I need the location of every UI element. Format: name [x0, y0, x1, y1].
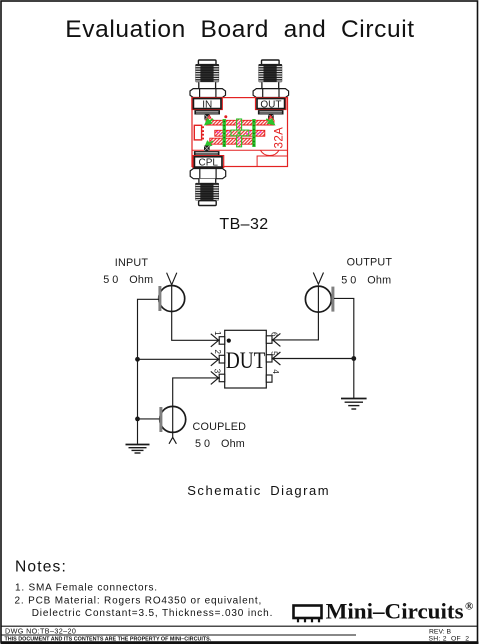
INPUT connector mounting bar — [158, 286, 161, 311]
pin 5 box — [266, 355, 272, 362]
wire: output circle to pin6 — [272, 312, 318, 340]
svg-text:2. PCB Material: Rogers RO4350: 2. PCB Material: Rogers RO4350 or equiva… — [15, 596, 263, 607]
svg-text:Evaluation Board and Circuit: Evaluation Board and Circuit — [65, 16, 414, 43]
left edge component symbol — [194, 125, 204, 140]
COUPLED connector stem — [172, 406, 174, 437]
top microstrip trace (hatched) — [206, 116, 274, 126]
wire: coupled tap — [138, 418, 160, 420]
red outline around CPL label — [193, 156, 224, 168]
svg-text:Notes:: Notes: — [15, 559, 67, 576]
SMA connector OUT : hex nut — [253, 89, 289, 98]
wire: pin5 — [272, 358, 354, 360]
green via fence bar right — [252, 119, 255, 147]
wire: pin3 to coupled — [173, 378, 219, 407]
pin 6 box — [266, 336, 272, 344]
ground right — [341, 399, 367, 410]
green via fence bar left — [223, 119, 226, 147]
junction node pin2 tap — [135, 357, 140, 362]
SMA connector IN : threaded barrel — [195, 64, 219, 82]
IN washer — [194, 110, 220, 114]
pin 4 box — [266, 375, 272, 382]
svg-text:1. SMA Female connectors.: 1. SMA Female connectors. — [15, 582, 158, 593]
svg-text:SH: 2 OF 2: SH: 2 OF 2 — [429, 635, 470, 642]
DUT box U1 — [225, 330, 267, 388]
svg-text:OUT: OUT — [260, 99, 281, 110]
svg-text:32A: 32A — [274, 127, 286, 149]
red outline around OUT label — [256, 98, 286, 110]
SMA connector CPL : neck — [199, 179, 216, 183]
junction node pin5/ground — [351, 356, 356, 361]
svg-text:CPL: CPL — [198, 158, 218, 169]
svg-text:®: ® — [465, 601, 473, 613]
svg-text:6: 6 — [270, 332, 279, 337]
PCB lower divider line — [192, 149, 288, 151]
footer top rule — [1, 625, 478, 627]
central DUT cross pad — [231, 119, 249, 147]
INPUT connector circle — [159, 286, 185, 312]
svg-text:50Ohm: 50Ohm — [103, 274, 153, 286]
COUPLED connector Y arrow (downward) — [169, 437, 176, 444]
SMA connector CPL : washer — [194, 151, 220, 156]
svg-text:50Ohm: 50Ohm — [195, 438, 245, 450]
footer mid rule — [1, 634, 356, 636]
svg-text:REV: B: REV: B — [429, 628, 451, 635]
svg-text:COUPLED: COUPLED — [193, 421, 247, 433]
pin 1 marker dot — [227, 339, 231, 343]
wire: pin2 — [138, 358, 219, 360]
red reference dot — [224, 115, 227, 118]
SMA connector CPL : hex nut — [190, 169, 226, 179]
svg-text:4: 4 — [271, 369, 280, 374]
svg-text:2: 2 — [213, 350, 222, 355]
svg-text:1: 1 — [213, 331, 222, 336]
svg-text:DUT: DUT — [226, 348, 266, 373]
arrow into pin 6 — [272, 333, 281, 346]
arrow into pin 3 — [211, 371, 220, 384]
IN center pin pad — [204, 115, 210, 121]
red outline around IN label — [192, 98, 222, 110]
svg-text:DWG NO:TB–32–20: DWG NO:TB–32–20 — [5, 626, 76, 635]
SMA connector IN : hex nut — [190, 89, 226, 98]
IN label box — [193, 99, 221, 109]
svg-text:THIS DOCUMENT AND ITS CONTENTS: THIS DOCUMENT AND ITS CONTENTS ARE THE P… — [5, 637, 212, 643]
arrow into pin 1 — [211, 334, 220, 347]
INPUT connector Y arrow — [167, 273, 177, 285]
arrow into pin 5 — [272, 352, 281, 365]
arrow into pin 2 — [211, 353, 220, 366]
pin 3 box — [219, 374, 225, 382]
COUPLED connector circle — [160, 406, 186, 432]
Mini-Circuits logo icon — [294, 606, 322, 623]
wire: output to right drop — [334, 298, 354, 398]
svg-text:Dielectric Constant=3.5, Thick: Dielectric Constant=3.5, Thickness=.030 … — [32, 608, 274, 619]
OUT label box — [257, 99, 285, 109]
PCB arc cutout — [260, 150, 279, 155]
svg-text:5: 5 — [270, 351, 279, 356]
SMA connector CPL : cap — [199, 201, 217, 206]
pin 2 box — [219, 355, 225, 363]
OUTPUT connector stem — [317, 285, 319, 312]
OUT center pin pad — [268, 115, 274, 121]
OUTPUT connector mounting bar — [331, 287, 334, 312]
pin 1 box — [219, 337, 225, 345]
svg-text:OUTPUT: OUTPUT — [347, 257, 393, 269]
svg-text:IN: IN — [202, 99, 212, 110]
CPL label box — [194, 157, 222, 167]
svg-text:INPUT: INPUT — [115, 257, 149, 269]
middle coupled-line trace (hatched) — [215, 130, 265, 136]
junction node coupled tap — [135, 417, 140, 422]
PCB board outline — [192, 98, 288, 167]
page bottom thick border — [1, 642, 479, 644]
SMA connector OUT : neck — [262, 82, 279, 88]
svg-text:TB–32: TB–32 — [219, 216, 268, 233]
COUPLED connector mounting bar — [159, 407, 162, 432]
OUTPUT connector Y arrow — [313, 273, 323, 285]
svg-text:Schematic Diagram: Schematic Diagram — [187, 483, 330, 498]
magenta via dots — [217, 123, 262, 144]
svg-text:50Ohm: 50Ohm — [341, 275, 391, 287]
OUTPUT connector circle — [305, 286, 331, 312]
ground left — [126, 445, 150, 454]
SMA connector CPL : threaded barrel — [195, 183, 219, 201]
svg-text:Mini–Circuits: Mini–Circuits — [326, 598, 464, 623]
SMA connector IN : neck — [199, 82, 216, 88]
SMA connector OUT : cap — [262, 60, 280, 65]
SMA connector CPL : center pin pad — [204, 146, 210, 152]
wire: input circle to pin1 — [172, 312, 219, 341]
svg-text:3: 3 — [212, 369, 221, 374]
bottom coupled trace (hatched) — [205, 138, 253, 149]
SMA connector IN : cap — [198, 60, 216, 65]
PCB notch rectangle — [257, 156, 287, 167]
INPUT connector stem — [171, 285, 173, 312]
OUT washer — [258, 110, 284, 114]
wire: input left drop — [138, 299, 160, 444]
green corner arrows — [205, 119, 275, 147]
SMA connector OUT : threaded barrel — [258, 64, 282, 82]
